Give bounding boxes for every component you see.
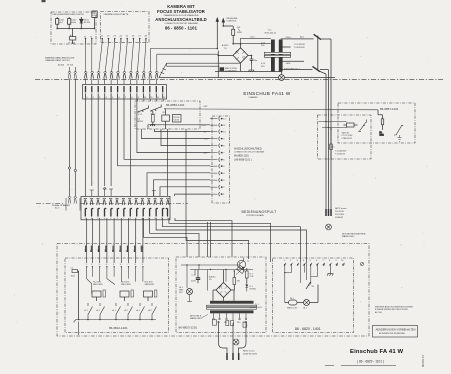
assembly 86-6857-1101 box (338, 103, 415, 143)
svg-text:350: 350 (261, 45, 265, 47)
svg-text:St 103: St 103 (67, 64, 74, 67)
label fuse ratings (294, 44, 306, 49)
capacitor C102 (68, 17, 78, 29)
svg-text:86-6812-1201: 86-6812-1201 (109, 326, 128, 330)
fuse Si1 (69, 29, 76, 45)
svg-text:86-6856-1101: 86-6856-1101 (166, 103, 185, 107)
svg-text:s2.2: s2.2 (96, 310, 101, 312)
svg-text:T 0,34/110V: T 0,34/110V (294, 47, 306, 49)
svg-text:A 3U15: A 3U15 (222, 44, 230, 47)
svg-text:1/4W: 1/4W (237, 32, 242, 34)
svg-text:5: 5 (310, 260, 312, 262)
connector strip St103 body (83, 85, 167, 100)
svg-text:+12V: +12V (203, 106, 209, 108)
svg-text:Si 1: Si 1 (331, 147, 335, 149)
wire feed left (217, 51, 219, 78)
svg-text:86 - 6820 - 1401: 86 - 6820 - 1401 (295, 327, 321, 331)
wire mains rail (159, 77, 335, 79)
svg-text:25: 25 (126, 35, 129, 37)
svg-text:22: 22 (107, 35, 110, 37)
transformer Tr1 (250, 29, 314, 72)
svg-text:ws/gn: ws/gn (140, 245, 143, 252)
svg-text:110V~: 110V~ (286, 63, 293, 65)
pin 3 (219, 178, 220, 182)
contact hooks lower row (85, 209, 167, 217)
svg-text:Rl.1: Rl.1 (163, 112, 168, 114)
pin 1 (219, 192, 220, 196)
svg-text:A1 100.: A1 100. (375, 311, 383, 314)
cable terminals (227, 353, 239, 360)
wire bridge to primary top (241, 38, 271, 43)
svg-text:NR4: NR4 (380, 135, 385, 137)
svg-text:S1: S1 (312, 286, 315, 288)
pins 21-28 of Verbindungs-Platte (101, 35, 148, 42)
transistor T1 (237, 258, 250, 272)
junction sleeve on camera wires (68, 167, 76, 172)
svg-text:24V: 24V (179, 292, 183, 294)
wire pin stubs (210, 119, 218, 195)
svg-text:EINSCHUB FA41 W: EINSCHUB FA41 W (243, 91, 291, 96)
svg-text:STECKERL Bu.1: STECKERL Bu.1 (284, 68, 301, 70)
connector Bu2 control board column (212, 116, 230, 203)
svg-text:GL1: GL1 (303, 308, 308, 310)
resistor R1 150R (223, 25, 242, 43)
svg-text:7: 7 (125, 97, 127, 99)
lamp BL (378, 110, 385, 137)
title block KAMERA MIT FOCUS STABILISATOR (155, 4, 207, 30)
protective earth symbol (279, 75, 285, 81)
svg-text:9: 9 (336, 260, 338, 262)
switch contacts s2 (88, 303, 157, 320)
svg-text:86-6853-1201: 86-6853-1201 (179, 326, 198, 330)
svg-text:86-6857-1101: 86-6857-1101 (380, 107, 399, 111)
svg-text:REGIE ANL.: REGIE ANL. (227, 17, 239, 20)
svg-text:3: 3 (99, 97, 101, 99)
svg-text:23: 23 (113, 35, 116, 37)
wire feeds to mains section (150, 48, 240, 72)
svg-text:T U: T U (224, 48, 228, 50)
wire mesh camera row to control row (86, 98, 211, 196)
transformer taps (212, 313, 248, 324)
diode D2 text (209, 277, 216, 282)
pin 8 (219, 144, 220, 148)
connector row St1 forks (camera side) (84, 72, 158, 79)
assembly FREQUENZWEICHEN-PLATTE box (51, 12, 96, 44)
wire (36, 203, 64, 205)
wire (80, 203, 188, 205)
pin 11 (219, 123, 220, 127)
svg-text:NETZ mains: NETZ mains (243, 351, 255, 353)
svg-text:5: 5 (223, 166, 225, 168)
svg-text:150: 150 (237, 27, 241, 29)
bridge rectifier Gr2 (213, 270, 234, 301)
svg-text:4u7: 4u7 (59, 22, 63, 24)
label mains ratings (335, 208, 347, 219)
svg-text:7: 7 (323, 260, 325, 262)
capacitor C2 (191, 270, 200, 284)
title underline (325, 365, 396, 367)
svg-text:8: 8 (329, 260, 331, 262)
svg-text:11: 11 (150, 97, 153, 99)
connector Bu103 forks (68, 67, 77, 79)
switch S2 (358, 120, 367, 132)
svg-text:51074: 51074 (173, 119, 180, 121)
svg-text:1: 1 (223, 194, 225, 196)
svg-text:2: 2 (91, 264, 93, 266)
pin 4 (219, 171, 220, 175)
svg-text:1: 1 (284, 260, 286, 262)
secondary winding (279, 40, 283, 72)
svg-text:9062-201-01: 9062-201-01 (265, 32, 278, 34)
relay Rl2 (92, 282, 105, 302)
svg-text:1: 1 (86, 97, 88, 99)
wire motor feed (319, 121, 348, 129)
svg-text:AENDERUNGEN VORBEHALTEN: AENDERUNGEN VORBEHALTEN (376, 327, 416, 331)
svg-text:SM24 B25: SM24 B25 (121, 284, 132, 286)
transformer Tr2 (207, 301, 263, 314)
pin 10 (219, 130, 220, 134)
svg-text:7: 7 (223, 153, 225, 155)
svg-text:1D: 1D (209, 279, 212, 281)
svg-text:28: 28 (145, 35, 148, 37)
svg-text:SM24 B25: SM24 B25 (145, 284, 156, 286)
text D1 SM155 (137, 119, 144, 124)
svg-text:S 1.1: S 1.1 (138, 114, 144, 116)
pin numbers control row (85, 218, 171, 220)
svg-text:( 86 - 6829 - 1101 ): ( 86 - 6829 - 1101 ) (357, 359, 384, 363)
svg-text:MAINS ONLY: MAINS ONLY (342, 235, 355, 238)
drawing title Einschub FA 41 W (350, 349, 404, 364)
svg-text:VERBINDUNGS-PLATTE: VERBINDUNGS-PLATTE (104, 13, 129, 16)
svg-text:rt/ws: rt/ws (250, 36, 254, 39)
svg-text:gr: gr (111, 250, 114, 252)
secondary winding bar (210, 301, 254, 304)
svg-text:21: 21 (101, 35, 104, 37)
svg-text:9: 9 (138, 97, 140, 99)
svg-text:br: br (90, 250, 93, 252)
label nur bei (342, 234, 366, 239)
svg-text:T 1: T 1 (247, 261, 251, 263)
svg-text:220: 220 (237, 322, 241, 324)
motor Sm1 (342, 123, 358, 140)
pin 71 (84, 37, 87, 44)
connector Bu1 plug (300, 34, 331, 74)
svg-text:5: 5 (112, 97, 114, 99)
wire mains pair to motor (326, 39, 331, 209)
svg-text:s2.1: s2.1 (84, 310, 89, 312)
svg-text:7: 7 (127, 264, 129, 266)
connector speaker pair forks (66, 197, 80, 211)
svg-text:4: 4 (223, 173, 225, 175)
forks control board (84, 198, 170, 205)
assembly 86-6856-1101 box (135, 101, 200, 129)
mains connector terminals (326, 209, 331, 216)
pin numbers 1-12 (86, 97, 166, 99)
svg-text:SIGNAL SPEAKER: SIGNAL SPEAKER (52, 204, 70, 207)
svg-text:240: 240 (244, 322, 248, 324)
wires switch board (284, 262, 317, 303)
ground switch board (327, 265, 333, 276)
wire +12V output (164, 106, 378, 110)
label camera stand outlet (45, 56, 75, 66)
contact labels (84, 310, 153, 312)
label EINSCHUB FA41W (243, 91, 291, 99)
wire return rail (215, 72, 282, 75)
diode D101 (80, 17, 91, 29)
svg-text:ANSCHLUSSCHALTBILD: ANSCHLUSSCHALTBILD (155, 17, 207, 22)
frame separator dash-dot line (camera / Einschub boundary) (35, 79, 443, 81)
resistor R4 2,2k (246, 268, 255, 283)
svg-text:2: 2 (93, 97, 95, 99)
svg-text:CHASSIS: CHASSIS (248, 96, 258, 99)
svg-text:s3.2: s3.2 (124, 310, 129, 312)
wire routing inside relay board (87, 267, 143, 294)
svg-text:220-240V: 220-240V (335, 214, 345, 216)
pins top of relay board (86, 264, 144, 266)
label fuse values (335, 151, 347, 156)
svg-text:86-6850-1101: 86-6850-1101 (234, 154, 249, 157)
svg-text:1: 1 (86, 264, 88, 266)
svg-text:s4.2: s4.2 (148, 310, 153, 312)
wire colour code ticks (85, 246, 142, 253)
relay Rl3 (120, 282, 133, 302)
relay Rl4 (144, 282, 157, 302)
capacitor C101 (56, 17, 66, 29)
switch S1.2 (150, 105, 161, 116)
svg-text:MAINS UNIT: MAINS UNIT (190, 317, 203, 320)
svg-text:NETZ mains: NETZ mains (335, 208, 347, 210)
svg-text:WEITERE ANSCHLUSSMOEGLICHKEIT: WEITERE ANSCHLUSSMOEGLICHKEIT (375, 306, 414, 309)
svg-text:6: 6 (120, 264, 122, 266)
svg-text:3: 3 (297, 260, 299, 262)
svg-text:12: 12 (223, 119, 226, 121)
assembly 86-6812-1201 box (65, 258, 169, 333)
pin 2 (219, 185, 220, 189)
switch S1.1 (137, 106, 148, 116)
svg-text:10: 10 (341, 260, 344, 262)
svg-text:( 86-6858-1101 ): ( 86-6858-1101 ) (234, 158, 252, 161)
label Bedienungspult (242, 210, 277, 217)
title block Anschlussschaltbild small (234, 148, 265, 162)
svg-text:9062-401-01: 9062-401-01 (250, 307, 263, 309)
svg-text:4: 4 (303, 260, 305, 262)
wires from box pins to forks (86, 43, 146, 72)
svg-text:BEDIENUNGSPULT: BEDIENUNGSPULT (242, 210, 277, 214)
svg-text:8: 8 (135, 264, 137, 266)
pin 5 (219, 164, 220, 168)
svg-text:10u: 10u (254, 60, 258, 62)
assembly Sm1 motor box (318, 115, 372, 159)
svg-text:50/60HZ: 50/60HZ (335, 217, 344, 219)
resistor R2 (150, 111, 155, 126)
fuse Si1 einschub (330, 128, 336, 159)
svg-text:110-220V: 110-220V (335, 211, 344, 213)
svg-text:Bu 2: Bu 2 (55, 208, 60, 210)
svg-text:2200: 2200 (191, 281, 196, 283)
svg-text:3: 3 (223, 180, 225, 182)
transistor pair at mains unit bottom (212, 320, 246, 327)
svg-text:Bu103: Bu103 (58, 65, 65, 67)
svg-text:SF128: SF128 (84, 22, 91, 24)
svg-text:s4.1: s4.1 (136, 310, 141, 312)
switch S3 (394, 125, 403, 141)
pin 9 (219, 137, 220, 141)
pin 6 (219, 158, 220, 162)
spare pin symbol (360, 262, 363, 265)
svg-text:4: 4 (106, 97, 108, 99)
scan mark top edge (42, 0, 46, 2)
connector strip control board body (81, 196, 170, 219)
assembly VERBINDUNGS-PLATTE box (101, 12, 150, 43)
svg-text:220V~: 220V~ (286, 37, 293, 39)
wire secondary taps (281, 39, 314, 70)
svg-text:350: 350 (261, 66, 265, 68)
mains cable wires (219, 321, 247, 353)
label signal speaker (52, 204, 70, 210)
svg-text:FREQUENZWEICHEN-PLATTE: FREQUENZWEICHEN-PLATTE (53, 13, 85, 16)
svg-text:CONTROL: CONTROL (227, 20, 238, 22)
svg-text:T 0,04/220V: T 0,04/220V (335, 151, 347, 153)
pin 72 (90, 37, 93, 44)
svg-text:+18V: +18V (201, 125, 207, 127)
svg-text:CAMERA STAND OUTLET: CAMERA STAND OUTLET (45, 59, 71, 62)
diode D1 SY360 (245, 283, 256, 292)
svg-text:CONNECTION CIRCUIT DIAGRAM: CONNECTION CIRCUIT DIAGRAM (164, 22, 197, 25)
pin 12 (219, 117, 220, 121)
svg-text:100n: 100n (71, 276, 76, 278)
svg-text:80769-73: 80769-73 (421, 355, 425, 367)
svg-text:CONNECTION CIRCUIT DIAGRAM: CONNECTION CIRCUIT DIAGRAM (234, 150, 265, 153)
svg-text:SM24 C18: SM24 C18 (287, 308, 298, 310)
svg-text:10: 10 (144, 97, 147, 99)
label netz mains (243, 351, 258, 356)
svg-text:CONTROL BOARD: CONTROL BOARD (246, 214, 265, 217)
svg-text:2,2k: 2,2k (250, 276, 255, 278)
svg-text:9: 9 (223, 139, 225, 141)
svg-text:ALTERATIONS RESERVED: ALTERATIONS RESERVED (379, 332, 406, 335)
svg-text:SM155: SM155 (137, 121, 144, 123)
svg-text:13: 13 (163, 97, 166, 99)
wire stubs into relay box top (137, 99, 163, 101)
svg-text:1/2W: 1/2W (92, 15, 97, 17)
pin 7 (219, 151, 220, 155)
note box Aenderungen vorbehalten (373, 326, 418, 338)
node A 3U15 (222, 44, 230, 50)
ground (248, 65, 254, 73)
primary winding (271, 40, 275, 72)
svg-text:SM24 B25: SM24 B25 (93, 284, 104, 286)
svg-text:4: 4 (106, 264, 108, 266)
resistor R3 470 (233, 270, 241, 290)
core plates (207, 305, 257, 307)
svg-text:TONADERN: TONADERN (225, 70, 237, 73)
svg-text:CTA3 110V: CTA3 110V (342, 137, 353, 140)
capacitor C1 relay board (71, 268, 79, 320)
net labels at connector (201, 125, 208, 155)
svg-text:9: 9 (142, 264, 144, 266)
svg-text:6: 6 (223, 160, 225, 162)
svg-text:24: 24 (120, 35, 123, 37)
svg-text:FOCUS STABILISATOR: FOCUS STABILISATOR (157, 9, 205, 14)
lamp Gl2 (303, 285, 318, 310)
svg-text:2: 2 (290, 260, 292, 262)
svg-text:8: 8 (131, 97, 133, 99)
label Netzteile (190, 315, 208, 321)
svg-text:12: 12 (157, 97, 160, 99)
wire fork stubs to strip (86, 79, 157, 85)
svg-text:50/60 HZ 220V: 50/60 HZ 220V (243, 354, 258, 356)
svg-text:3: 3 (99, 264, 101, 266)
svg-text:27: 27 (138, 35, 141, 37)
pins switch board (284, 260, 345, 266)
node junctions (56, 28, 95, 30)
wire camera stand pair down (70, 79, 76, 197)
switch S5 (306, 282, 315, 289)
lamp Gl1 (179, 287, 193, 302)
chassis outer dashed box (57, 244, 369, 337)
svg-text:Bu.1: Bu.1 (300, 36, 305, 38)
capacitor C1 10u (250, 55, 258, 65)
svg-text:10: 10 (223, 132, 226, 134)
wire node to primary lower (241, 43, 271, 45)
label weitere anschlussmoeglichkeit (375, 306, 414, 314)
svg-text:5: 5 (113, 264, 115, 266)
svg-text:8: 8 (223, 146, 225, 148)
svg-text:26: 26 (132, 35, 135, 37)
svg-text:470: 470 (237, 281, 241, 283)
arrow to control signal (216, 17, 238, 49)
relay TR101 (173, 115, 182, 123)
relay Rl1 coil (162, 110, 170, 129)
wire internal bus of box1 (57, 28, 94, 30)
wire ground rail relay board (74, 319, 156, 335)
assembly 86-6820-1401 switch board box (273, 258, 354, 333)
earth screw symbol (233, 339, 239, 345)
svg-text:86 - 6850 - 1101: 86 - 6850 - 1101 (165, 26, 198, 31)
terminator caps on unused pins (90, 188, 156, 197)
svg-text:Einschub FA 41 W: Einschub FA 41 W (350, 349, 404, 355)
cable screen mark (159, 63, 167, 77)
svg-text:Tr 1: Tr 1 (255, 303, 259, 306)
svg-text:s3.1: s3.1 (112, 310, 117, 312)
primary winding bar (210, 310, 254, 313)
svg-text:2: 2 (223, 187, 225, 189)
svg-text:ANSCHLUSSCHALTBILD: ANSCHLUSSCHALTBILD (234, 148, 262, 151)
resistor R101 (92, 11, 97, 29)
svg-text:6: 6 (316, 260, 318, 262)
svg-text:SY360: SY360 (250, 289, 257, 291)
svg-text:100u: 100u (71, 22, 76, 24)
filter SM2 0,2/250 (220, 67, 238, 72)
core (264, 52, 290, 54)
svg-text:Tr.1: Tr.1 (268, 29, 272, 32)
wire bus power unit (181, 264, 253, 290)
relay Gl2 coil (285, 298, 304, 310)
svg-text:6: 6 (119, 97, 121, 99)
assembly 86-6853-1201 power unit box (176, 257, 266, 333)
svg-text:F 1,6A: F 1,6A (69, 41, 76, 44)
potentiometer P1 (236, 267, 244, 275)
protective earth symbol lower (326, 224, 332, 230)
svg-text:T 0,6/110V: T 0,6/110V (335, 154, 346, 156)
svg-text:11: 11 (223, 125, 226, 127)
bridge rectifier Gr1 (218, 43, 252, 71)
wire drops control row to power unit (87, 129, 307, 263)
